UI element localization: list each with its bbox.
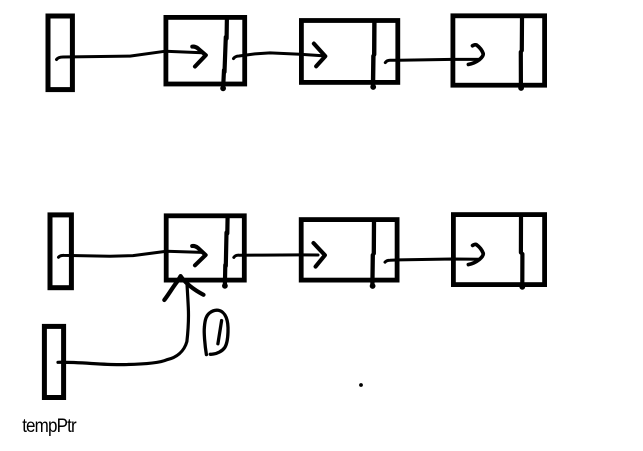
pointer divider in N3 bottom	[519, 215, 525, 290]
arrowhead into node1 (top)	[192, 47, 206, 67]
head pointer box (bottom list)	[50, 215, 71, 288]
node box N3 (bottom)	[453, 215, 544, 285]
wire head to node1 (bottom)	[59, 251, 203, 257]
wire head to node1 (top)	[57, 51, 203, 59]
stray dot	[359, 383, 363, 387]
wire N1 to N2 (bottom)	[234, 255, 318, 258]
pointer divider in N3	[518, 18, 524, 91]
up arrowhead at N1 bottom edge	[164, 276, 203, 300]
arrowhead into N3 (bottom)	[468, 244, 483, 264]
arrowhead into node1 (bottom)	[192, 246, 205, 265]
node box N1 (bottom)	[166, 216, 244, 280]
label tempPtr	[22, 415, 76, 438]
pointer divider in N1 bottom	[222, 217, 228, 289]
pointer divider in N2	[370, 21, 376, 90]
node box N1 (top)	[166, 17, 245, 84]
node box N2 (bottom)	[301, 220, 397, 281]
pointer divider in N1	[220, 18, 227, 91]
arrowhead into N3 (top)	[468, 45, 483, 65]
head pointer box (top list)	[48, 16, 72, 90]
node box N2 (top)	[301, 21, 397, 83]
node box N3 (top)	[453, 16, 545, 85]
tempPtr pointer box	[44, 326, 63, 397]
wire N2 to N3 (top)	[385, 59, 479, 62]
wire N2 to N3 (bottom)	[385, 259, 480, 262]
blob doodle	[204, 310, 228, 354]
arrowhead into N2 (bottom)	[314, 243, 325, 267]
wire N1 to N2 (top)	[234, 53, 323, 59]
arrowhead into N2 (top)	[314, 44, 325, 67]
pointer divider in N2 bottom	[370, 221, 376, 289]
curved wire tempPtr to N1 (bottom)	[58, 284, 188, 364]
